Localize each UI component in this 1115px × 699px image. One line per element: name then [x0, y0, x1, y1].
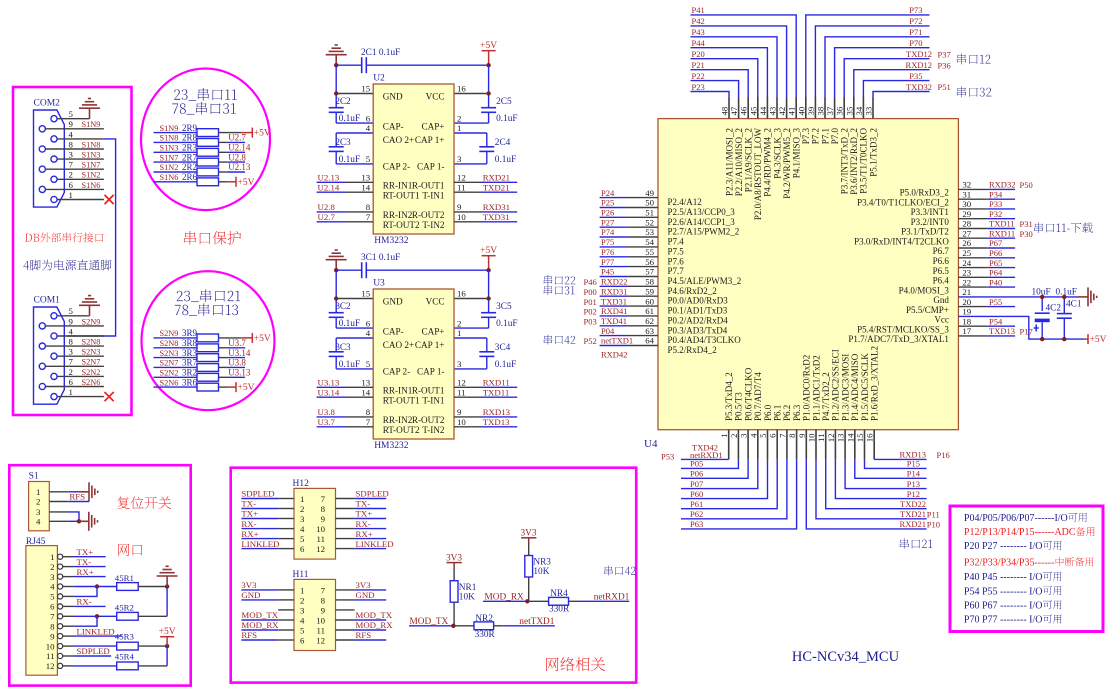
svg-text:P03: P03 — [584, 317, 597, 327]
svg-text:17: 17 — [962, 326, 971, 336]
svg-text:TXD41: TXD41 — [601, 316, 627, 326]
svg-text:3: 3 — [69, 347, 74, 357]
power +5V — [227, 382, 236, 392]
wire RJ45 pin7 to resistor 45R2 — [74, 615, 117, 617]
svg-text:LINKLED: LINKLED — [241, 539, 279, 549]
svg-text:RXD11: RXD11 — [483, 378, 510, 388]
wire pin 49 left MCU — [600, 197, 628, 199]
svg-text:RX-: RX- — [77, 597, 92, 607]
svg-text:U3.7: U3.7 — [228, 338, 246, 348]
wire pin 59 left MCU — [600, 295, 628, 297]
capacitor 3C1 top — [362, 262, 367, 278]
title 78_串口31 — [172, 102, 236, 115]
wire 45R2 right — [138, 615, 167, 617]
svg-text:GND: GND — [383, 297, 403, 307]
wire junction to NR4 — [527, 600, 548, 602]
svg-text:P4.6/RxD2_2: P4.6/RxD2_2 — [668, 286, 717, 296]
svg-text:CAP-: CAP- — [383, 121, 404, 131]
svg-text:RFS: RFS — [356, 630, 372, 640]
wire MOD_RX segment — [483, 600, 527, 602]
svg-text:TXD13: TXD13 — [989, 326, 1015, 336]
wire to U2.8 — [219, 161, 227, 163]
svg-text:S2N8: S2N8 — [160, 339, 179, 348]
power +5V — [242, 333, 253, 343]
svg-text:2R3: 2R3 — [182, 143, 198, 153]
svg-text:TXD11: TXD11 — [483, 387, 510, 397]
svg-text:1: 1 — [36, 487, 40, 497]
svg-text:P7.2: P7.2 — [811, 128, 821, 144]
svg-text:+5V: +5V — [238, 383, 255, 393]
wire pin 17 right MCU — [958, 335, 987, 337]
svg-text:TXD21: TXD21 — [900, 509, 926, 519]
switch S1 body — [29, 482, 50, 531]
svg-text:NR3: NR3 — [533, 558, 551, 568]
wire +5V row — [219, 132, 242, 134]
wire pin 18 right MCU — [958, 325, 987, 327]
wire pin 7 left U3 — [317, 426, 346, 428]
wire pin 27 right MCU — [958, 237, 987, 239]
wire pin 13 left U2 — [317, 181, 346, 183]
svg-text:2: 2 — [36, 497, 40, 507]
wire pin 5 bottom-left MCU — [681, 459, 768, 498]
svg-text:57: 57 — [645, 267, 654, 277]
svg-text:TXD12: TXD12 — [906, 49, 932, 59]
svg-text:0.1uF: 0.1uF — [495, 155, 516, 165]
svg-text:2C4: 2C4 — [495, 138, 511, 148]
svg-text:P6.6: P6.6 — [933, 256, 950, 266]
svg-text:P1.5/ADC5/SCLK: P1.5/ADC5/SCLK — [860, 353, 870, 421]
svg-text:MOD_TX: MOD_TX — [241, 610, 278, 620]
wire+net LINKLED right H12 — [355, 548, 387, 550]
svg-text:R-OUT2: R-OUT2 — [412, 210, 445, 220]
wire pin 9 right U2 — [454, 211, 481, 213]
resistor 2R6 — [154, 181, 198, 183]
wire pin 10 right U2 — [454, 221, 481, 223]
svg-text:6: 6 — [50, 602, 55, 612]
svg-text:3: 3 — [739, 433, 749, 438]
svg-text:TXD21: TXD21 — [483, 182, 510, 192]
svg-text:24: 24 — [962, 258, 971, 268]
ground (earth) above 45R1 — [157, 566, 178, 586]
wire vertical 45R1-45R2 — [166, 587, 168, 617]
svg-text:P3.0/RxD/INT4/T2CLKO: P3.0/RxD/INT4/T2CLKO — [854, 236, 949, 246]
wire+net RX+ right H12 — [355, 538, 387, 540]
svg-text:20: 20 — [962, 297, 971, 307]
svg-text:CAP 1-: CAP 1- — [417, 367, 444, 377]
wire pin 14 left U2 — [317, 191, 346, 193]
svg-text:1: 1 — [69, 190, 73, 200]
ground (earth rotated) S1 lower — [79, 512, 98, 531]
svg-text:P7.7: P7.7 — [668, 266, 685, 276]
svg-text:P3.4/T0/T1CLKO/ECI_2: P3.4/T0/T1CLKO/ECI_2 — [857, 197, 949, 207]
wire right vertical with capacitor 3C5 — [488, 270, 490, 298]
wire net TXD32 to pin 33 — [873, 92, 930, 98]
wire pin15 U2 — [336, 93, 373, 95]
svg-text:58: 58 — [645, 277, 654, 287]
svg-text:RXD21: RXD21 — [483, 173, 510, 183]
svg-text:P0.2/AD2/RxD4: P0.2/AD2/RxD4 — [668, 315, 729, 325]
text serial protection label — [184, 231, 241, 245]
junction MOD_RX-NR3-NR4 — [525, 599, 529, 603]
wire+net MOD_TX left H11 — [241, 619, 278, 621]
wire NR3 to MOD_RX — [528, 577, 530, 601]
svg-text:RX+: RX+ — [241, 529, 258, 539]
svg-text:P30: P30 — [1020, 229, 1033, 239]
svg-text:P2.5/A13/CCP0_3: P2.5/A13/CCP0_3 — [668, 207, 736, 217]
svg-text:RT-OUT1: RT-OUT1 — [383, 190, 420, 200]
wire+net GND right H11 — [355, 599, 387, 601]
pin 1 of COM1 — [51, 394, 57, 400]
svg-text:4: 4 — [69, 326, 74, 336]
svg-text:P02: P02 — [584, 307, 597, 317]
svg-text:3C1 0.1uF: 3C1 0.1uF — [361, 253, 400, 263]
junction 45R3 right — [165, 644, 169, 648]
svg-text:RX+: RX+ — [77, 567, 94, 577]
svg-text:P04/P05/P06/P07------I/O: P04/P05/P06/P07------I/O — [964, 513, 1068, 524]
wire net P44 to pin 44 — [691, 48, 768, 97]
svg-text:5: 5 — [69, 109, 74, 119]
wire net P21 to pin 46 — [691, 70, 749, 97]
svg-text:7: 7 — [321, 494, 326, 504]
connector RJ45 body — [26, 546, 58, 676]
wire left vertical with capacitor 2C2 — [335, 65, 337, 93]
svg-text:34: 34 — [854, 106, 864, 115]
wire junction to NR2 — [453, 625, 474, 627]
svg-text:6: 6 — [300, 544, 305, 554]
svg-text:9: 9 — [69, 119, 74, 129]
svg-text:6: 6 — [768, 433, 778, 438]
svg-text:P7.5: P7.5 — [668, 246, 685, 256]
wire pin 57 left MCU — [600, 276, 628, 278]
wire+net SDPLED right H12 — [355, 498, 387, 500]
wire pin 11 bottom-right MCU — [826, 459, 927, 508]
wire to U3.13 — [219, 376, 227, 378]
svg-text:P17: P17 — [1020, 327, 1033, 337]
resistor 2R3 — [154, 151, 198, 153]
ground at U2 — [326, 45, 347, 65]
svg-text:3: 3 — [69, 150, 74, 160]
svg-text:3C4: 3C4 — [495, 343, 511, 353]
svg-text:MOD_RX: MOD_RX — [356, 620, 394, 630]
svg-text:SDPLED: SDPLED — [356, 489, 389, 499]
wire to U3.8 — [219, 366, 227, 368]
svg-text:P06: P06 — [690, 469, 703, 479]
wire pin 24 right MCU — [958, 267, 987, 269]
svg-text:P66: P66 — [989, 248, 1002, 258]
wire+net LINKLED left H12 — [241, 548, 278, 550]
svg-text:NR1: NR1 — [459, 583, 477, 593]
svg-text:TX-: TX- — [356, 499, 371, 509]
svg-text:3V3: 3V3 — [241, 580, 257, 590]
svg-text:P2.6/A14/CCP1_3: P2.6/A14/CCP1_3 — [668, 217, 736, 227]
svg-text:P72: P72 — [909, 16, 922, 26]
pin 9 of COM2 — [39, 126, 45, 132]
svg-text:S1N6: S1N6 — [82, 181, 101, 190]
svg-text:10K: 10K — [459, 593, 475, 603]
svg-text:P07: P07 — [690, 479, 703, 489]
wire RJ45 pin8 riser — [74, 616, 97, 626]
svg-text:1: 1 — [300, 494, 304, 504]
svg-text:P1.3/ADC3/MOSI: P1.3/ADC3/MOSI — [840, 354, 850, 421]
svg-text:P0.7/AD7/T4: P0.7/AD7/T4 — [753, 372, 763, 421]
svg-text:33: 33 — [864, 106, 874, 115]
svg-text:P5.1/TxD3_2: P5.1/TxD3_2 — [868, 128, 878, 177]
svg-text:9: 9 — [50, 631, 55, 641]
wire net P41 to pin 41 — [691, 15, 797, 97]
svg-text:CAP 1-: CAP 1- — [417, 162, 444, 172]
svg-text:U2.7: U2.7 — [318, 212, 336, 222]
svg-text:S2N7: S2N7 — [82, 358, 101, 367]
svg-text:15: 15 — [361, 84, 370, 94]
svg-text:0.1uF: 0.1uF — [339, 319, 360, 329]
svg-text:P37: P37 — [938, 49, 951, 59]
svg-text:HM3232: HM3232 — [374, 236, 409, 246]
svg-text:P20: P20 — [692, 49, 705, 59]
svg-text:P70: P70 — [909, 38, 922, 48]
svg-text:3V3: 3V3 — [356, 580, 372, 590]
svg-text:P0.3/AD3/TxD4: P0.3/AD3/TxD4 — [668, 325, 728, 335]
svg-text:51: 51 — [645, 208, 654, 218]
wire COM2 pin4 to COM1 pin4 — [104, 139, 116, 336]
capacitor 2C3 between pin4 pin5 — [336, 132, 373, 134]
svg-text:12: 12 — [316, 635, 325, 645]
text DB port annotation — [25, 232, 103, 242]
svg-text:0.1uF: 0.1uF — [496, 114, 517, 124]
svg-text:MOD_RX: MOD_RX — [485, 593, 525, 603]
resistor 3R2 — [154, 376, 198, 378]
wire+net RX+ left H12 — [241, 538, 278, 540]
svg-text:S2N9: S2N9 — [160, 329, 179, 338]
svg-text:RXD11: RXD11 — [989, 228, 1015, 238]
svg-text:P6.4: P6.4 — [933, 276, 950, 286]
svg-text:P73: P73 — [909, 5, 922, 15]
svg-text:RFS: RFS — [69, 492, 85, 502]
wire +5V row — [219, 181, 227, 183]
svg-text:P55: P55 — [989, 297, 1002, 307]
wire pin 26 right MCU — [958, 247, 987, 249]
svg-text:12: 12 — [457, 173, 466, 183]
svg-text:VCC: VCC — [426, 92, 445, 102]
resistor 45R4 — [117, 662, 139, 670]
svg-text:RXD41: RXD41 — [601, 306, 627, 316]
svg-text:44: 44 — [758, 106, 768, 115]
svg-text:U3.13: U3.13 — [318, 378, 340, 388]
junction dots cap cluster — [1040, 295, 1044, 299]
svg-text:P6.7: P6.7 — [933, 246, 950, 256]
MCU bottom pin stubs and numbers — [728, 430, 730, 460]
svg-text:S1N2: S1N2 — [160, 163, 179, 172]
svg-text:P4.7/TxD2_2: P4.7/TxD2_2 — [821, 372, 831, 421]
svg-text:2: 2 — [300, 595, 304, 605]
resistor 2R2 — [154, 171, 198, 173]
title 23_串口21 — [177, 289, 241, 302]
svg-text:T-IN1: T-IN1 — [422, 190, 445, 200]
svg-text:RR-IN1: RR-IN1 — [383, 386, 413, 396]
svg-text:10K: 10K — [533, 567, 549, 577]
svg-text:U3: U3 — [373, 279, 385, 289]
ellipse serial protection group — [142, 271, 275, 410]
svg-text:16: 16 — [457, 289, 466, 299]
text serial22 annotation — [544, 275, 576, 285]
svg-text:1: 1 — [300, 585, 304, 595]
svg-text:7: 7 — [50, 612, 55, 622]
svg-text:S1N7: S1N7 — [82, 161, 101, 170]
wire RJ45 pin12 to resistor 45R4 — [74, 665, 117, 667]
svg-text:U2.8: U2.8 — [228, 152, 246, 162]
svg-text:TXD31: TXD31 — [601, 296, 627, 306]
junction MOD_TX-NR1-NR2 — [451, 624, 455, 628]
wire pin 2 bottom-left MCU — [681, 459, 738, 468]
svg-text:+5V: +5V — [480, 246, 497, 256]
svg-text:S1: S1 — [29, 472, 39, 482]
svg-text:12: 12 — [826, 434, 836, 443]
wire pin 60 left MCU — [600, 305, 628, 307]
svg-text:0.1uF: 0.1uF — [496, 319, 517, 329]
svg-text:H11: H11 — [293, 570, 309, 580]
wire pin 9 bottom-right MCU — [806, 459, 926, 529]
svg-text:45R3: 45R3 — [115, 632, 135, 642]
wire pin15 U3 — [336, 298, 373, 300]
svg-text:P5.3/TxD4_2: P5.3/TxD4_2 — [724, 372, 734, 421]
svg-text:P5.0/RxD3_2: P5.0/RxD3_2 — [900, 188, 949, 198]
svg-text:0.1uF: 0.1uF — [339, 114, 360, 124]
svg-text:P7.4: P7.4 — [668, 237, 685, 247]
svg-text:11: 11 — [317, 534, 325, 544]
svg-text:5: 5 — [69, 306, 74, 316]
svg-text:CAP 2-: CAP 2- — [383, 367, 410, 377]
svg-text:2: 2 — [300, 504, 304, 514]
svg-text:8: 8 — [366, 202, 371, 212]
text serial11-download annotation — [1034, 222, 1092, 232]
power +5V — [227, 177, 236, 187]
svg-text:R-OUT2: R-OUT2 — [412, 415, 445, 425]
resistor 2R8 — [154, 141, 198, 143]
wire net P73 to pin 40 — [806, 15, 930, 97]
svg-text:H12: H12 — [293, 479, 310, 489]
svg-text:LINKLED: LINKLED — [77, 626, 115, 636]
svg-text:P20 P27 -------- I/O: P20 P27 -------- I/O — [964, 541, 1043, 552]
wire pin 8 left U2 — [317, 211, 346, 213]
svg-text:U3.13: U3.13 — [228, 368, 251, 378]
wire pin 32 right MCU — [958, 188, 987, 190]
svg-text:U2.8: U2.8 — [318, 202, 336, 212]
junction 45R1 right — [165, 584, 169, 588]
resistor NR2 330R — [474, 622, 494, 630]
svg-text:26: 26 — [962, 238, 971, 248]
svg-text:3R2: 3R2 — [182, 368, 197, 378]
power +5V above 45R3 — [160, 637, 174, 646]
svg-text:2C1 0.1uF: 2C1 0.1uF — [361, 48, 400, 58]
svg-text:3R3: 3R3 — [182, 348, 198, 358]
wire top rail U3 — [336, 269, 361, 271]
svg-text:+5V: +5V — [254, 334, 271, 344]
svg-text:P15: P15 — [907, 459, 920, 469]
svg-text:22: 22 — [962, 277, 971, 287]
wire pin 63 left MCU — [600, 335, 628, 337]
capacitor 2C1 top — [362, 57, 367, 73]
svg-text:P1.0/ADC0/RxD2: P1.0/ADC0/RxD2 — [802, 355, 812, 421]
svg-text:7: 7 — [366, 212, 371, 222]
svg-text:RXD31: RXD31 — [601, 286, 627, 296]
wire pin 13 left U3 — [317, 386, 346, 388]
svg-text:P74: P74 — [601, 227, 615, 237]
no-connect X at COM1 pin 1 — [105, 392, 114, 401]
svg-text:P6.2: P6.2 — [782, 405, 792, 421]
wire pin 55 left MCU — [600, 256, 628, 258]
text pin4 power annotation — [23, 260, 111, 271]
svg-text:S2N2: S2N2 — [82, 368, 101, 377]
svg-text:4C2: 4C2 — [1046, 304, 1062, 314]
svg-text:46: 46 — [739, 106, 749, 115]
wire pin 12 right U2 — [454, 181, 481, 183]
wire pin 64 left MCU — [600, 345, 628, 347]
svg-text:P36: P36 — [938, 60, 951, 70]
wire RJ45 pin 3 RX+ — [74, 576, 106, 578]
svg-text:3C5: 3C5 — [496, 302, 512, 312]
svg-text:+5V: +5V — [480, 41, 497, 51]
svg-text:HM3232: HM3232 — [374, 441, 409, 451]
svg-text:2C2: 2C2 — [335, 97, 351, 107]
svg-text:P3.2/INT0: P3.2/INT0 — [911, 217, 950, 227]
svg-text:5: 5 — [300, 534, 305, 544]
svg-text:P0.4/AD4/T3CLKO: P0.4/AD4/T3CLKO — [668, 335, 742, 345]
wire pin 31 right MCU — [958, 198, 987, 200]
svg-text:RR-IN2: RR-IN2 — [383, 210, 413, 220]
pin 1 of COM2 — [51, 196, 57, 202]
svg-text:NR2: NR2 — [475, 614, 493, 624]
svg-text:U3.14: U3.14 — [228, 348, 251, 358]
wire pin 9 right U3 — [454, 416, 481, 418]
svg-text:S2N3: S2N3 — [160, 349, 179, 358]
svg-text:45R2: 45R2 — [115, 603, 134, 613]
svg-text:12: 12 — [46, 661, 55, 671]
svg-text:7: 7 — [69, 160, 74, 170]
svg-text:S1N9: S1N9 — [160, 124, 179, 133]
svg-text:38: 38 — [816, 106, 826, 115]
svg-text:8: 8 — [69, 337, 74, 347]
svg-text:TXD13: TXD13 — [483, 417, 510, 427]
svg-text:4: 4 — [69, 129, 74, 139]
wire pin 50 left MCU — [600, 207, 628, 209]
wire pin 58 left MCU — [600, 285, 628, 287]
svg-text:43: 43 — [768, 106, 778, 115]
resistor NR4 330R — [549, 597, 569, 605]
svg-text:CAO 2+: CAO 2+ — [383, 340, 414, 350]
svg-text:+5V: +5V — [1090, 335, 1107, 345]
svg-text:45R4: 45R4 — [115, 652, 135, 662]
svg-text:4: 4 — [50, 582, 55, 592]
svg-text:S1N3: S1N3 — [160, 144, 179, 153]
svg-text:T-IN2: T-IN2 — [422, 220, 445, 230]
svg-text:P2.4/A12: P2.4/A12 — [668, 197, 702, 207]
svg-text:1: 1 — [69, 387, 73, 397]
svg-text:1: 1 — [719, 434, 729, 438]
svg-text:RXD21: RXD21 — [900, 519, 926, 529]
wire pin 29 right MCU — [958, 218, 987, 220]
svg-text:U3.14: U3.14 — [318, 387, 340, 397]
svg-text:RT-OUT2: RT-OUT2 — [383, 220, 420, 230]
svg-text:59: 59 — [645, 286, 654, 296]
svg-text:49: 49 — [645, 188, 654, 198]
svg-text:5: 5 — [50, 592, 55, 602]
svg-text:LINKLED: LINKLED — [356, 539, 394, 549]
wire 45R1 to ground junction — [138, 586, 167, 588]
wire net P20 to pin 45 — [691, 59, 758, 97]
wire vertical 45R3-45R4 — [166, 646, 168, 666]
svg-text:RX-: RX- — [356, 519, 371, 529]
svg-text:29: 29 — [962, 209, 971, 219]
svg-text:R-OUT1: R-OUT1 — [412, 386, 445, 396]
